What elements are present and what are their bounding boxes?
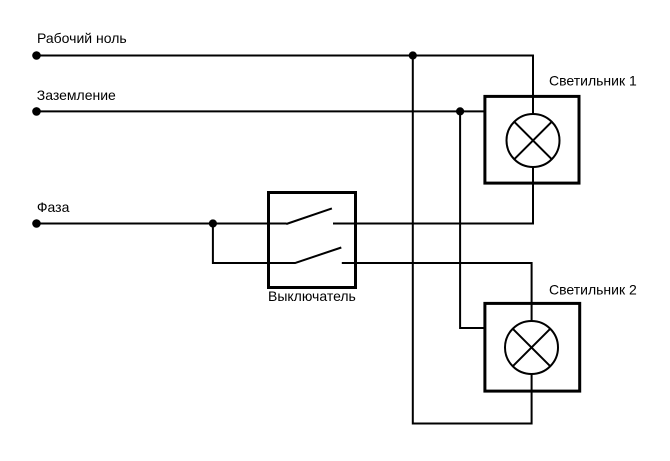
junction dot: phase / branch to lower switch pole [209, 219, 217, 227]
svg-text:Заземление: Заземление [37, 87, 116, 103]
lamp 1 bulb circle [507, 114, 560, 167]
switch box (Выключатель) [269, 193, 356, 288]
svg-text:Выключатель: Выключатель [268, 288, 356, 304]
node terminal dot: phase left end [32, 219, 41, 228]
wire: phase branch down and right to switch lower pivot [213, 224, 296, 264]
svg-text:Фаза: Фаза [37, 199, 70, 215]
lamp 1 box (Светильник 1) [485, 96, 579, 183]
lamp 2 box (Светильник 2) [485, 303, 580, 391]
junction dot: ground / branch to lamp 2 [456, 107, 464, 115]
svg-text:Светильник 2: Светильник 2 [549, 281, 637, 297]
junction dot: neutral / long vertical [409, 51, 417, 59]
node terminal dot: neutral left end [32, 51, 41, 60]
lamp 1 bulb X diagonal 1 [514, 122, 551, 159]
wire: neutral horizontal, turns down to lamp 1 top [36, 56, 533, 115]
wire: ground branch down then right into lamp 2 left [460, 111, 484, 328]
svg-text:Рабочий ноль: Рабочий ноль [37, 30, 127, 46]
lamp 2 bulb X diagonal 2 [513, 329, 550, 366]
wire: upper switch output right then up into lamp 1 bottom [333, 167, 533, 224]
wire: phase horizontal to switch upper pivot [36, 223, 287, 225]
lamp 2 bulb circle [505, 321, 558, 374]
switch blade: lower pole [296, 248, 342, 263]
wire: ground horizontal [36, 110, 484, 112]
svg-text:Светильник 1: Светильник 1 [549, 73, 637, 89]
switch blade: upper pole [286, 208, 332, 224]
lamp 1 bulb X diagonal 2 [514, 122, 551, 159]
node terminal dot: ground left end [32, 107, 41, 116]
wire: lower switch output right then down into lamp 2 top [342, 263, 532, 322]
lamp 2 bulb X diagonal 1 [513, 329, 550, 366]
wire: long neutral vertical, bottom run, up into lamp 2 bottom [413, 56, 532, 424]
